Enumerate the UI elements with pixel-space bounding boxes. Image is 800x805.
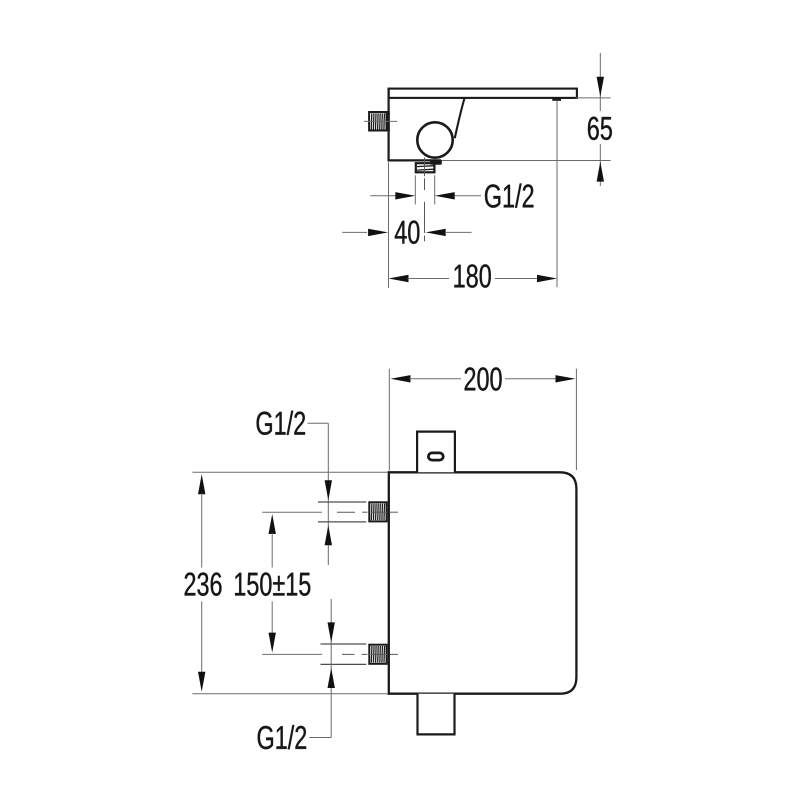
dim 40 left line <box>342 231 367 233</box>
outlet centre dash line <box>424 178 426 241</box>
dim G1/2 left line <box>370 195 396 197</box>
dim 236 line upper <box>201 493 203 567</box>
dim 200 line right <box>505 378 557 380</box>
dim 40 right arrow <box>426 229 446 236</box>
lower connector thread hatch <box>371 646 384 663</box>
dim 180 line left <box>408 278 450 280</box>
dim 180 right extension line <box>556 101 558 287</box>
dim 65 text <box>588 117 612 140</box>
dim G1/2 right line <box>454 195 481 197</box>
dim 236 top extension <box>192 471 387 473</box>
outlet thread hatch <box>417 166 434 170</box>
dim 200 text <box>465 367 502 390</box>
upper left connector (threaded) <box>369 502 386 521</box>
dim 180 line right <box>495 278 538 280</box>
G1/2 lower label <box>258 725 306 749</box>
G1/2 upper label <box>257 411 305 435</box>
dim 200 line left <box>410 378 462 380</box>
control knob circle <box>417 122 452 157</box>
tab slot <box>428 453 443 460</box>
dim 236 arrow up <box>198 474 205 494</box>
dim 150 text <box>235 572 310 595</box>
dim 65 vertical line lower <box>599 144 601 186</box>
dim 65 arrow up <box>597 162 604 182</box>
dim 200 right extension line <box>575 369 577 470</box>
top mounting tab <box>417 432 455 473</box>
dim 40 right line <box>445 231 472 233</box>
valve body (rounded right corners) <box>389 472 577 693</box>
lower connector top extension <box>321 643 367 645</box>
dim 200 left arrow <box>391 375 411 382</box>
lower left connector (threaded) <box>369 645 386 664</box>
G1/2 upper leader horizontal <box>308 422 329 424</box>
upper connector bottom extension <box>318 521 366 523</box>
dim 180 left extension line <box>388 162 390 288</box>
dim 40 text <box>395 221 420 244</box>
dim 200 left extension line <box>388 369 390 471</box>
dim 236 line lower <box>201 602 203 673</box>
dim 150 line lower <box>271 602 273 634</box>
upper connector centre line solid <box>262 511 322 513</box>
left connector thread hatch <box>371 113 384 129</box>
G1/2 upper leader vertical <box>327 423 329 565</box>
dim 40 left arrow <box>368 229 388 236</box>
lower connector bottom extension <box>321 663 367 665</box>
bottom outlet (threaded) <box>416 163 435 172</box>
dim 236 text <box>185 572 222 595</box>
body bottom edge <box>388 159 442 161</box>
lower connector centre line solid <box>262 653 322 655</box>
dim 180 text <box>454 264 490 287</box>
upper connector centre dash line <box>337 511 398 513</box>
left inlet connector (threaded) <box>369 112 386 131</box>
dim G1/2 right arrow <box>435 192 455 199</box>
diagonal front face <box>455 99 465 139</box>
upper connector thread hatch <box>371 504 384 520</box>
G1/2 lower leader horizontal <box>309 737 331 739</box>
bottom mounting tab <box>418 694 455 735</box>
G1/2 upper arrow down <box>325 480 332 500</box>
left connector centre line <box>364 120 398 122</box>
dim 200 right arrow <box>556 375 576 382</box>
body bottom extension line (65 dim reference) <box>441 160 611 162</box>
G1/2 outlet extension line left <box>414 175 416 204</box>
dim 180 right arrow <box>537 275 557 282</box>
spout slit mark under plate right end <box>552 98 561 101</box>
outlet centre line through <box>424 158 426 177</box>
upper connector top extension <box>318 501 366 503</box>
lower connector centre dash line <box>342 653 398 655</box>
left connector flange <box>387 111 390 131</box>
body left edge <box>388 89 390 161</box>
dim 150 arrow up <box>269 514 276 534</box>
outlet top-right lip <box>430 160 442 165</box>
dim 65 extension line top <box>576 97 611 99</box>
dim 180 left arrow <box>389 275 409 282</box>
dim 65 vertical line upper <box>599 53 601 111</box>
spout top plate <box>389 89 577 98</box>
G1/2 outlet extension line right <box>434 175 436 204</box>
dim 236 bottom extension <box>192 693 387 695</box>
G1/2 lower leader vertical <box>330 599 332 738</box>
dim 65 arrow down <box>597 77 604 97</box>
dim G1/2 text <box>485 183 533 207</box>
G1/2 lower arrow up <box>328 668 335 688</box>
G1/2 lower arrow down <box>328 622 335 642</box>
dim G1/2 left arrow <box>395 192 415 199</box>
dim 236 arrow down <box>198 672 205 692</box>
dim 150 arrow down <box>269 633 276 653</box>
dim 150 line upper <box>271 533 273 568</box>
G1/2 upper arrow up <box>325 525 332 545</box>
